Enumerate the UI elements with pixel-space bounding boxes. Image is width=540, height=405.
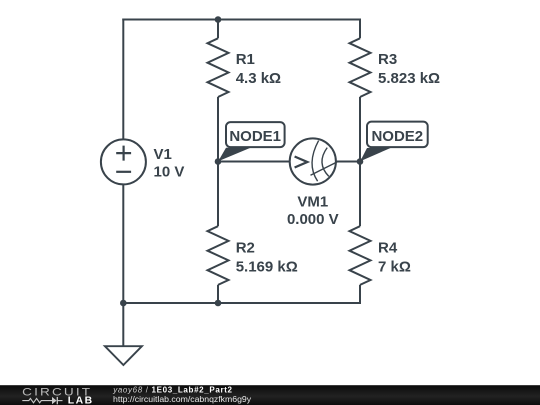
wire left vertical lower (V1 to bottom wire): [122, 185, 124, 305]
junction dot bottom left: [120, 300, 127, 307]
wire node A to voltmeter: [218, 161, 289, 163]
resistor R4: [350, 226, 371, 285]
junction dot top: [215, 16, 222, 23]
voltmeter VM1 circle: [290, 138, 336, 184]
junction dot node B: [357, 158, 364, 165]
VM1 needle: [311, 161, 339, 175]
svg-text:R1: R1: [236, 51, 255, 68]
svg-text:10 V: 10 V: [154, 164, 185, 181]
voltage source V1 circle: [101, 139, 146, 184]
svg-text:7 kΩ: 7 kΩ: [378, 259, 411, 276]
resistor R1: [208, 38, 229, 97]
svg-text:yaoy68 / 1E03_Lab#2_Part2: yaoy68 / 1E03_Lab#2_Part2: [112, 385, 232, 394]
node NODE1 flag box: [218, 122, 284, 161]
wire R3 top lead: [359, 19, 361, 39]
ground stem wire: [122, 303, 124, 346]
footer bar: [0, 385, 540, 405]
VM1 scale arc 2: [322, 148, 329, 177]
svg-text:4.3 kΩ: 4.3 kΩ: [236, 70, 281, 87]
V1 plus sign: [116, 146, 131, 161]
svg-text:LAB: LAB: [68, 396, 94, 405]
wire left vertical upper (top corner to V1): [122, 19, 124, 140]
logo resistor squiggle: [22, 397, 62, 404]
logo diode cathode bar: [56, 397, 58, 404]
svg-text:VM1: VM1: [297, 194, 328, 211]
VM1 polarity mark: [295, 157, 308, 168]
svg-text:R4: R4: [378, 240, 398, 257]
wire R4 bottom lead: [359, 285, 361, 304]
VM1 scale arc 1: [312, 141, 319, 182]
svg-text:R2: R2: [236, 240, 255, 257]
V1 minus sign: [116, 171, 131, 173]
wire node A to R2: [217, 162, 219, 227]
svg-text:5.823 kΩ: 5.823 kΩ: [378, 70, 440, 87]
svg-text:http://circuitlab.com/cabnqzfk: http://circuitlab.com/cabnqzfkm6g9y: [113, 394, 252, 404]
svg-text:NODE1: NODE1: [229, 128, 281, 145]
wire top horizontal: [122, 19, 361, 21]
wire R1 bottom lead to node A: [217, 97, 219, 162]
wire node B to R4: [359, 162, 361, 227]
wire voltmeter to node B: [337, 161, 361, 163]
ground: [105, 346, 142, 365]
svg-text:5.169 kΩ: 5.169 kΩ: [236, 259, 298, 276]
wire R2 bottom lead: [217, 285, 219, 304]
svg-text:NODE2: NODE2: [371, 128, 423, 145]
svg-text:0.000 V: 0.000 V: [287, 211, 339, 228]
junction dot node A: [215, 158, 222, 165]
resistor R3: [350, 38, 371, 97]
resistor R2: [208, 226, 229, 285]
junction dot bottom center: [215, 300, 222, 307]
wire R1 top lead: [217, 19, 219, 39]
wire R3 bottom lead to node B: [359, 97, 361, 162]
logo diode triangle: [52, 397, 57, 404]
svg-text:R3: R3: [378, 51, 397, 68]
node NODE2 flag box: [360, 122, 428, 162]
wire bottom horizontal: [122, 302, 361, 304]
svg-text:V1: V1: [154, 146, 172, 163]
